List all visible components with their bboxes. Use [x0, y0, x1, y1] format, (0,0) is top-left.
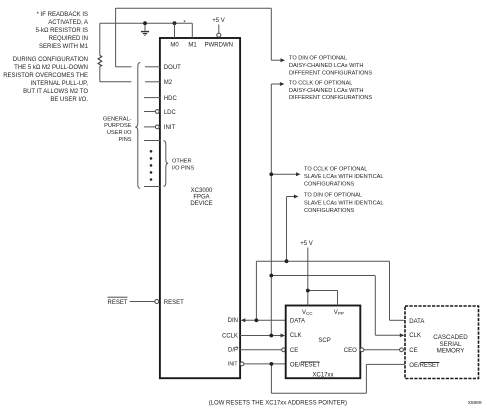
label other I/O pins	[172, 159, 194, 172]
svg-text:DAISY-CHAINED LCAs WITH: DAISY-CHAINED LCAs WITH	[289, 88, 363, 94]
wire M0	[174, 23, 176, 38]
junction CCLK-slave	[269, 172, 273, 176]
XC17xx SCP chip U2	[286, 306, 361, 379]
junction at ground	[143, 21, 147, 25]
bubble RESET pin	[155, 300, 159, 304]
svg-text:PINS: PINS	[118, 137, 131, 143]
svg-text:+5 V: +5 V	[300, 241, 313, 247]
node: to CCLK of slave	[304, 166, 383, 187]
svg-text:5-kΩ RESISTOR IS: 5-kΩ RESISTOR IS	[36, 28, 88, 34]
arrowhead CCLK daisy	[280, 82, 285, 86]
wire VCC to VPP branch	[308, 290, 338, 292]
svg-text:DAISY-CHAINED LCAs WITH: DAISY-CHAINED LCAs WITH	[289, 63, 363, 69]
svg-text:CLK: CLK	[290, 333, 302, 339]
svg-text:RESET: RESET	[164, 300, 184, 306]
svg-text:DIFFERENT CONFIGURATIONS: DIFFERENT CONFIGURATIONS	[289, 70, 372, 76]
bubble SCP CEO pin	[360, 348, 364, 352]
svg-text:REQUIRED IN: REQUIRED IN	[49, 36, 88, 42]
node: to DIN of daisy-chained	[289, 56, 372, 77]
wire DATA cascaded drop	[389, 261, 391, 320]
svg-text:CCLK: CCLK	[222, 333, 238, 339]
cascaded serial memory U3 (dashed)	[405, 306, 479, 379]
dots other I/O pins	[150, 150, 153, 181]
wire M1	[191, 23, 193, 38]
brace other I/O pins	[163, 141, 168, 187]
svg-text:CONFIGURATIONS: CONFIGURATIONS	[304, 182, 355, 188]
arrowhead DIN slave	[294, 195, 299, 199]
svg-text:MEMORY: MEMORY	[437, 348, 465, 355]
arrowhead into FPGA DIN	[241, 318, 246, 322]
svg-text:USER I/O: USER I/O	[107, 130, 132, 136]
svg-text:DIFFERENT CONFIGURATIONS: DIFFERENT CONFIGURATIONS	[289, 95, 372, 101]
junction DIN	[255, 318, 259, 322]
resistor R1 5k M2 pull-down	[98, 23, 131, 82]
svg-text:INIT: INIT	[228, 362, 237, 368]
pin label D/P (P active low)	[228, 347, 238, 353]
svg-text:OTHER: OTHER	[172, 159, 192, 165]
svg-text:FPGA: FPGA	[193, 195, 209, 201]
junction CCLK-cascade	[269, 274, 273, 278]
svg-text:DOUT: DOUT	[164, 65, 181, 71]
svg-text:PWRDWN: PWRDWN	[205, 42, 233, 48]
wire VPP drop	[337, 291, 339, 306]
svg-text:RESISTOR OVERCOMES THE: RESISTOR OVERCOMES THE	[3, 73, 88, 79]
wire into cascaded DATA	[390, 319, 406, 321]
wire DIN riser	[255, 261, 257, 320]
+5V supply PWRDWN	[212, 18, 225, 37]
wire GND net horizontal	[100, 22, 192, 24]
junction VCC/VPP	[306, 289, 310, 293]
node RESET (active low) external	[107, 297, 158, 306]
note: readback footnote	[36, 12, 89, 50]
svg-text:CE: CE	[409, 348, 417, 354]
wire CEO to cascaded CE	[360, 348, 403, 352]
bubble FPGA INIT pin	[240, 362, 244, 366]
pin INIT stub with bubble	[144, 126, 155, 128]
label CASCADED SERIAL MEMORY	[433, 334, 468, 355]
svg-text:INIT: INIT	[164, 125, 176, 131]
svg-text:INTERNAL PULL-UP,: INTERNAL PULL-UP,	[31, 81, 89, 87]
svg-text:DIN: DIN	[228, 318, 238, 324]
wire DATA run to cascaded	[256, 260, 389, 262]
node: to DIN of slave	[304, 193, 383, 214]
XC3000 FPGA DEVICE label	[190, 188, 213, 207]
svg-text:DURING CONFIGURATION: DURING CONFIGURATION	[13, 57, 88, 63]
wire OE/RESET bottom run	[271, 392, 366, 394]
wire +5V to VCC	[307, 248, 309, 306]
junction INIT net	[270, 362, 274, 366]
bubble cascaded CE pin	[400, 348, 404, 352]
junction DIN slave branch	[285, 259, 289, 263]
svg-text:XC3000: XC3000	[191, 188, 213, 194]
pin HDC stub	[144, 97, 161, 99]
wire RESET input	[130, 301, 155, 303]
pin stub other1	[144, 140, 161, 142]
svg-text:TO CCLK OF OPTIONAL: TO CCLK OF OPTIONAL	[304, 166, 367, 172]
svg-text:PURPOSE: PURPOSE	[104, 123, 132, 129]
node: to CCLK of daisy-chained	[289, 80, 372, 101]
svg-text:SCP: SCP	[318, 338, 330, 344]
ground symbol	[141, 23, 149, 35]
svg-text:M2: M2	[164, 80, 173, 86]
FPGA chip body U1 XC3000	[160, 38, 240, 378]
svg-text:GENERAL-: GENERAL-	[103, 116, 132, 122]
arrowhead into CLK of XC17xx	[281, 334, 286, 338]
svg-text:BE USER I/O.: BE USER I/O.	[50, 97, 88, 103]
junction at M0	[173, 21, 177, 25]
svg-text:D/P: D/P	[228, 348, 238, 354]
svg-text:CEO: CEO	[344, 348, 357, 354]
wire into cascaded OE/RESET	[366, 363, 405, 365]
wire INIT to SCP OE/RESET	[244, 363, 286, 365]
wire OE/RESET riser to cascaded	[365, 364, 367, 393]
svg-text:OE/RESET: OE/RESET	[290, 363, 321, 369]
svg-text:CLK: CLK	[409, 333, 421, 339]
wire CCLK net	[240, 84, 400, 336]
svg-text:I/O PINS: I/O PINS	[172, 166, 194, 172]
svg-text:OE/RESET: OE/RESET	[409, 363, 440, 369]
bubble CE of XC17xx	[282, 348, 286, 352]
svg-text:M0: M0	[170, 42, 179, 48]
brace general purpose pins	[135, 63, 140, 189]
note: M2 pull-down explanation	[3, 57, 88, 103]
svg-text:BUT IT ALLOWS M2 TO: BUT IT ALLOWS M2 TO	[23, 89, 88, 95]
wire CEO run	[364, 349, 400, 351]
svg-text:+5 V: +5 V	[212, 18, 225, 24]
svg-text:SERIES WITH M1: SERIES WITH M1	[39, 44, 89, 50]
svg-text:RESET: RESET	[107, 300, 127, 306]
svg-text:TO DIN OF OPTIONAL: TO DIN OF OPTIONAL	[304, 193, 362, 199]
svg-text:DATA: DATA	[409, 319, 424, 325]
arrowhead CCLK slave	[296, 172, 301, 176]
arrowhead to DIN of daisy-chained	[281, 58, 286, 62]
svg-text:VCC: VCC	[302, 310, 313, 316]
wire DOUT net to top	[116, 8, 281, 67]
svg-text:TO CCLK OF OPTIONAL: TO CCLK OF OPTIONAL	[289, 80, 352, 86]
wire D/P to CE	[240, 349, 282, 351]
wire OE/RESET drop	[270, 364, 272, 393]
+5V supply for SCP	[300, 241, 337, 305]
svg-text:XC17xx: XC17xx	[312, 373, 333, 379]
bubble PWRDWN pin	[217, 33, 221, 37]
svg-text:M1: M1	[188, 42, 197, 48]
svg-text:SLAVE LCAs WITH IDENTICAL: SLAVE LCAs WITH IDENTICAL	[304, 200, 383, 206]
svg-text:CE: CE	[290, 348, 298, 354]
svg-text:LDC: LDC	[164, 110, 177, 116]
junction CCLK-main	[269, 334, 273, 338]
svg-text:(LOW RESETS THE XC17xx ADDRESS: (LOW RESETS THE XC17xx ADDRESS POINTER)	[209, 400, 347, 406]
wire DIN slave branch riser	[286, 197, 288, 262]
wire +5V to PWRDWN	[218, 25, 220, 33]
pin label OE/RESET (cascaded, RESET active low)	[409, 363, 440, 370]
wire INIT / OE-RESET net	[240, 362, 405, 393]
svg-text:* IF READBACK IS: * IF READBACK IS	[37, 12, 88, 18]
pin M2 stub	[145, 81, 161, 83]
svg-text:DEVICE: DEVICE	[190, 201, 212, 207]
wire DIN net	[245, 197, 406, 321]
svg-text:THE 5 kΩ M2 PULL-DOWN: THE 5 kΩ M2 PULL-DOWN	[14, 65, 88, 71]
svg-text:VPP: VPP	[334, 310, 344, 316]
svg-text:CONFIGURATIONS: CONFIGURATIONS	[304, 208, 355, 214]
arrowhead into CLK of cascaded	[400, 333, 405, 337]
wire SCP DATA to FPGA DIN	[245, 319, 286, 321]
svg-text:TO DIN OF OPTIONAL: TO DIN OF OPTIONAL	[289, 56, 347, 62]
svg-text:ACTIVATED, A: ACTIVATED, A	[48, 20, 88, 26]
pin DOUT stub	[145, 66, 161, 68]
wire to slave DIN arrow	[287, 196, 295, 198]
svg-text:SLAVE LCAs WITH IDENTICAL: SLAVE LCAs WITH IDENTICAL	[304, 174, 383, 180]
label general purpose	[103, 116, 132, 142]
svg-text:HDC: HDC	[164, 96, 178, 102]
svg-text:X5989: X5989	[468, 400, 482, 406]
pin stub other2	[144, 186, 161, 188]
pin LDC stub with bubble	[144, 111, 155, 113]
svg-text:DATA: DATA	[290, 319, 305, 325]
